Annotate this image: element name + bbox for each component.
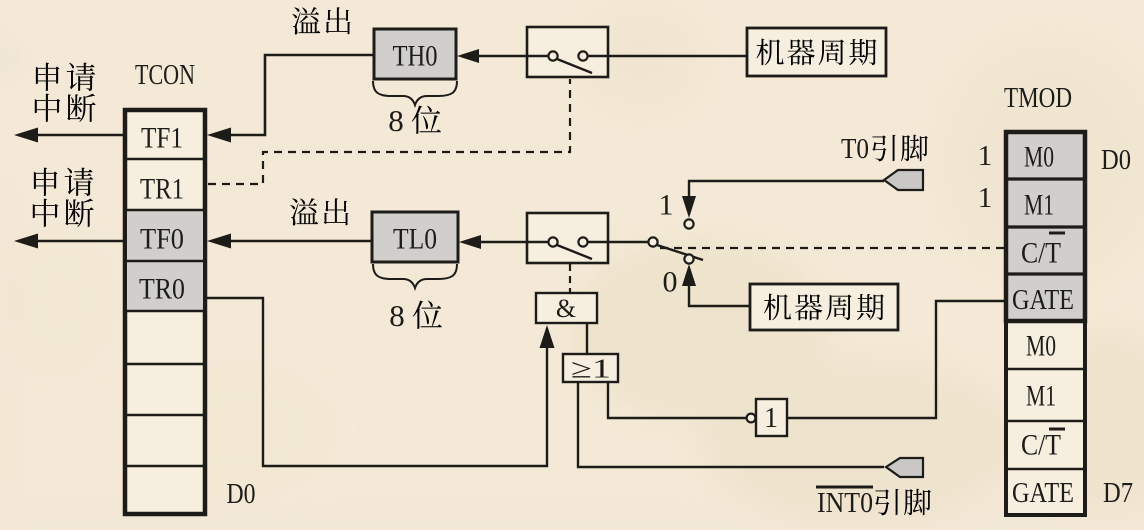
wire interrupt request from TF1 bbox=[36, 134, 123, 137]
svg-text:≥1: ≥1 bbox=[571, 353, 611, 383]
svg-text:TMOD: TMOD bbox=[1004, 83, 1072, 114]
wire counter input to TL0 bbox=[480, 241, 527, 244]
selector contact 1 bbox=[684, 219, 693, 228]
svg-text:1: 1 bbox=[659, 189, 674, 222]
wire GATE bit to NOT gate bbox=[787, 301, 1004, 418]
wire counter input to TH0 bbox=[478, 55, 527, 58]
wire S2 to selector pole bbox=[608, 241, 648, 244]
pin INT0 bbox=[886, 458, 923, 477]
selector contact 0 bbox=[684, 254, 693, 263]
wire TL0 overflow to TF0 bbox=[228, 240, 372, 243]
svg-text:T0: T0 bbox=[841, 134, 869, 165]
label 溢出 (TL0 overflow) bbox=[290, 198, 318, 225]
svg-text:GATE: GATE bbox=[1012, 478, 1074, 509]
brace 8-bit under TH0 bbox=[373, 81, 457, 105]
svg-text:1: 1 bbox=[978, 140, 993, 172]
svg-text:TL0: TL0 bbox=[393, 223, 437, 256]
AND gate & bbox=[536, 293, 597, 323]
register TH0 bbox=[374, 29, 456, 79]
OR gate >=1 bbox=[563, 354, 618, 382]
svg-text:C/T: C/T bbox=[1021, 429, 1061, 462]
TCON cell TF0 shading bbox=[127, 211, 203, 260]
svg-text:1: 1 bbox=[978, 182, 993, 214]
svg-text:M0: M0 bbox=[1024, 141, 1054, 174]
svg-text:D7: D7 bbox=[1103, 477, 1133, 509]
wire TH0 overflow to TF1 bbox=[228, 55, 374, 135]
dashed control S2 to AND gate bbox=[569, 264, 571, 293]
label 申请中断 (lower) bbox=[34, 168, 58, 196]
svg-text:TR1: TR1 bbox=[140, 173, 184, 206]
svg-text:TF0: TF0 bbox=[140, 223, 184, 256]
svg-text:M1: M1 bbox=[1024, 189, 1054, 222]
TMOD upper nibble shading bbox=[1008, 134, 1083, 319]
wire machine cycle to S1 bbox=[608, 55, 747, 58]
pin T0 bbox=[884, 170, 923, 190]
svg-text:GATE: GATE bbox=[1012, 285, 1074, 316]
svg-text:1: 1 bbox=[764, 403, 778, 434]
svg-text:C/T: C/T bbox=[1021, 237, 1061, 270]
dashed control TR1 to S1 bbox=[208, 79, 570, 184]
svg-text:TCON: TCON bbox=[135, 60, 195, 91]
wire NOT gate to OR gate bbox=[608, 382, 746, 418]
svg-text:8: 8 bbox=[389, 298, 405, 333]
wire TR0 to AND gate bbox=[207, 298, 547, 466]
wire interrupt request from TF0 bbox=[36, 240, 123, 243]
switch S2 (TL0 gate) bbox=[527, 213, 608, 263]
svg-text:8: 8 bbox=[388, 103, 404, 138]
svg-text:D0: D0 bbox=[1101, 144, 1131, 176]
TCON cell TR0 shading bbox=[127, 262, 203, 310]
svg-text:TF1: TF1 bbox=[141, 122, 183, 155]
label 申请中断 (upper) bbox=[36, 63, 60, 91]
svg-text:INT0: INT0 bbox=[817, 488, 873, 519]
machine cycle box (top) bbox=[747, 28, 886, 76]
register TCON body bbox=[125, 110, 205, 514]
wire machine cycle to contact 0 bbox=[689, 283, 750, 306]
svg-text:D0: D0 bbox=[227, 478, 256, 510]
register TL0 bbox=[372, 212, 458, 262]
register TMOD body bbox=[1006, 132, 1085, 515]
NOT gate 1 bbox=[747, 414, 756, 423]
dashed wire selector to C/T bit bbox=[660, 247, 1004, 249]
wire OR gate to AND gate bbox=[586, 323, 588, 354]
svg-text:TR0: TR0 bbox=[139, 273, 185, 306]
svg-text:TH0: TH0 bbox=[393, 40, 438, 73]
TMOD cell separators bbox=[1006, 179, 1085, 274]
svg-text:M1: M1 bbox=[1026, 380, 1056, 413]
brace 8-bit under TL0 bbox=[373, 264, 457, 288]
wire INT0 to OR gate bbox=[578, 382, 884, 467]
svg-text:0: 0 bbox=[663, 266, 678, 299]
machine cycle box (bottom) bbox=[750, 284, 898, 330]
switch S1 (TH0 gate) bbox=[527, 27, 608, 77]
svg-text:M0: M0 bbox=[1026, 330, 1056, 363]
wire T0 pin to contact 1 bbox=[689, 181, 884, 200]
TCON cell separators bbox=[125, 159, 205, 466]
svg-text:&: & bbox=[556, 294, 576, 323]
selector pole bbox=[648, 237, 657, 246]
TMOD outer border upper (thick) bbox=[1006, 132, 1085, 321]
label 溢出 (TH0 overflow) bbox=[292, 7, 320, 34]
